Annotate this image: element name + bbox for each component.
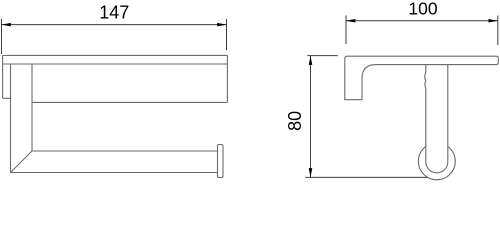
left view: rail corner diagonal <box>11 151 33 173</box>
dimension 80: bottom arrowhead <box>309 168 313 177</box>
dimension 147: left arrowhead <box>2 23 11 27</box>
left view: left plate bottom edge <box>3 97 11 99</box>
dimension 147: dimension line <box>2 24 227 26</box>
dimension 100: right extension line <box>497 16 499 46</box>
left view: post left edge <box>10 64 12 173</box>
left view: shelf right edge <box>226 55 228 102</box>
side view: hanger rod with rounded bottom <box>425 65 448 173</box>
svg-text:100: 100 <box>408 0 437 19</box>
dimension 100: dimension line <box>346 20 498 22</box>
left view: post right edge <box>31 64 33 151</box>
svg-text:80: 80 <box>285 111 305 131</box>
dimension 100: left arrowhead <box>346 19 355 23</box>
left view: rail end cap <box>218 145 224 178</box>
dimension 80: bottom extension line <box>305 176 428 178</box>
left view: shelf top edge <box>3 54 228 56</box>
left view: rail bottom edge <box>11 172 218 174</box>
side view: roll bar end disc (outer circle) <box>418 143 455 180</box>
dimension 147: right extension line <box>226 19 228 50</box>
svg-text:147: 147 <box>99 3 129 23</box>
dimension 147: left extension line <box>1 19 3 54</box>
left view: shelf second edge <box>3 63 228 65</box>
dimension 80: top arrowhead <box>309 56 313 65</box>
dimension 80: dimension line <box>310 56 312 178</box>
dimension 100: left extension line <box>345 16 347 45</box>
dimension 100: right arrowhead <box>489 19 498 23</box>
left view: shelf front bottom edge <box>32 101 227 103</box>
dimension 147: right arrowhead <box>217 23 226 27</box>
left view: rail top edge <box>32 150 218 152</box>
dimension 80: top extension line <box>307 55 337 57</box>
side view: top plate with front lip (L profile) <box>345 56 499 99</box>
left view: left plate outer edge <box>2 55 4 98</box>
